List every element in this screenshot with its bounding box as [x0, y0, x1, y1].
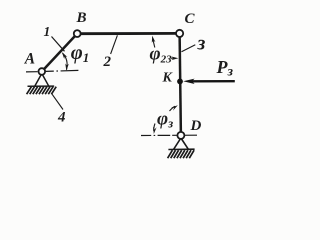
leader for label 3: [182, 45, 196, 52]
svg-text:1: 1: [44, 24, 51, 39]
support triangle at A: [28, 74, 55, 87]
link 2: coupler BC: [77, 32, 179, 35]
point K (node on link 3): [177, 79, 183, 85]
leader for label 1: [52, 37, 65, 52]
link 3: rocker CD: [180, 33, 181, 135]
joint B (pin): [74, 30, 81, 37]
φ23 arrow to link 3: [171, 57, 175, 59]
svg-text:4: 4: [57, 110, 66, 126]
force P3 arrowhead: [183, 79, 194, 84]
φ3 arrow to axis at D: [154, 124, 155, 132]
joint A (pin): [39, 68, 46, 75]
svg-text:2: 2: [103, 54, 112, 70]
angle arc φ1: [63, 53, 68, 70]
wire: dash-dot axis through joint A: [26, 71, 38, 73]
leader for label 2: [111, 35, 118, 54]
svg-text:B: B: [76, 10, 87, 26]
support triangle at D: [168, 138, 194, 150]
svg-text:φз: φз: [157, 109, 173, 131]
svg-text:D: D: [190, 118, 202, 134]
svg-text:Pз: Pз: [216, 57, 234, 80]
φ3 arrow to link 3: [170, 106, 176, 111]
ground hatching at A (frame 4): [27, 87, 57, 95]
joint D (pin): [177, 132, 184, 139]
svg-text:φ1: φ1: [71, 42, 90, 65]
svg-text:з: з: [197, 33, 206, 55]
link 1: crank AB: [42, 34, 77, 72]
svg-text:A: A: [24, 51, 35, 68]
force P3 arrow line: [192, 80, 235, 83]
φ23 arrow to link 2: [153, 40, 155, 48]
ground hatching at D: [168, 150, 195, 158]
φ1 arrowhead at link 1: [62, 52, 67, 59]
svg-text:K: K: [162, 71, 174, 86]
joint C (pin): [176, 30, 183, 37]
leader for label 4: [52, 94, 63, 110]
φ1 arrowhead at axis: [65, 64, 69, 71]
svg-text:C: C: [185, 11, 196, 27]
svg-text:φ23: φ23: [150, 44, 173, 66]
wire: dash-dot axis through joint D: [141, 134, 197, 136]
